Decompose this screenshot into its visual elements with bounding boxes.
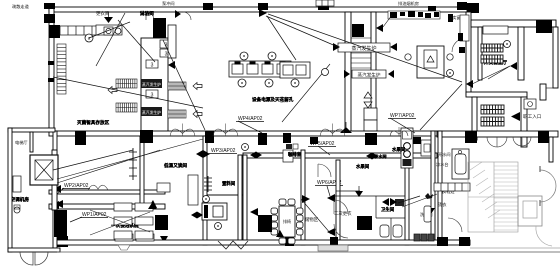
column meeting room — [258, 215, 272, 232]
column toilet black block — [357, 216, 372, 230]
svg-text:水果间: 水果间 — [355, 163, 370, 170]
tick mark left wall b — [48, 78, 54, 82]
arrow meeting room — [276, 230, 284, 237]
symbol circle near bench — [322, 69, 329, 76]
wall left vertical lower — [53, 131, 57, 248]
hood mark top right a2 — [448, 14, 453, 22]
svg-text:3: 3 — [165, 52, 168, 58]
wall jamb right entrance — [540, 84, 546, 100]
staircase bottom right — [468, 162, 518, 232]
stove bench center — [229, 61, 291, 77]
luminaire triangle top-left — [104, 17, 113, 23]
wire long top to right wall — [268, 14, 462, 82]
wire WP7 pointer — [390, 118, 415, 133]
arrow pair washroom wall — [191, 212, 197, 219]
door arc right wall — [452, 38, 466, 52]
riser column corridor right — [401, 128, 413, 168]
coffee room fixture box — [283, 150, 293, 162]
arrow takeout room — [510, 62, 517, 70]
wire WP6 pointer — [327, 186, 330, 196]
label box steam generator upper — [338, 43, 390, 52]
urinal row — [414, 234, 420, 241]
shelf hatched mid 3 — [168, 82, 186, 90]
shaft rung 7 — [351, 67, 371, 69]
fan symbol circle 4 — [238, 79, 246, 87]
column left wall upper — [49, 25, 60, 38]
column top-right corner — [467, 3, 479, 13]
wall vertical x440 b — [438, 131, 442, 245]
shaft rung 5 — [351, 57, 371, 59]
toilet fixture 1 — [380, 225, 389, 237]
shaft rung 1 — [351, 37, 371, 39]
entrance table hatched 2 — [481, 117, 504, 126]
arrow pair toilet wall — [382, 198, 389, 206]
double door stair hall 1 — [487, 137, 497, 147]
water heater rect annex — [13, 176, 21, 192]
takeout table hatched 1 — [481, 44, 503, 52]
shelf hatched mid 2 — [116, 103, 137, 112]
symbol circle washroom bottom — [215, 223, 222, 230]
wire right wall down — [420, 84, 462, 130]
column bottom wall x334 — [330, 237, 338, 245]
wall far-right vertical — [553, 27, 558, 88]
svg-text:低温又读间: 低温又读间 — [163, 162, 187, 169]
wire bench diagonal — [282, 64, 330, 122]
wall right stair hall x551 — [549, 137, 553, 162]
hood mark right wall — [459, 47, 465, 53]
stove bench left of shaft — [280, 62, 310, 78]
symbol circle corridor — [242, 144, 249, 151]
arrow staff entrance — [511, 112, 520, 121]
door double arc corridor 3 — [320, 129, 345, 136]
shaft rung 4 — [351, 52, 371, 54]
svg-text:WP3/AP02: WP3/AP02 — [211, 148, 236, 154]
open arrow hall 3 — [193, 111, 202, 118]
svg-text:开水间: 开水间 — [438, 151, 451, 158]
luminaire stem hall bottom — [345, 122, 347, 127]
open arrow hall 2 — [193, 83, 202, 90]
column corridor x314 — [310, 137, 318, 144]
symbol circle business — [447, 70, 454, 77]
door arc top wall 2 — [183, 12, 191, 20]
small icon annex — [14, 207, 20, 213]
white boxes on bottom wall 1 — [115, 234, 133, 241]
wire top to bench — [267, 16, 296, 60]
svg-text:咖啡室: 咖啡室 — [288, 151, 302, 158]
door double arc corridor 2 — [213, 129, 238, 136]
ironing room fixtures — [424, 206, 431, 222]
svg-text:泵冲间: 泵冲间 — [162, 0, 175, 7]
column top-right wing end — [536, 20, 552, 33]
arrow at top door 2 — [175, 10, 181, 18]
arrow hall right top — [376, 24, 383, 32]
arrow right wall x468 — [466, 80, 473, 88]
svg-text:设备电源及天花留孔: 设备电源及天花留孔 — [252, 96, 294, 103]
shaft left stack outline — [141, 38, 168, 133]
door arc toilet 1 — [334, 200, 348, 214]
elevator car X symbol — [35, 160, 53, 180]
svg-text:灭菌智具存放区: 灭菌智具存放区 — [76, 119, 110, 126]
sink counter toilet — [395, 199, 404, 206]
riser busbar left — [132, 148, 134, 180]
wall vertical x245 washroom-coffee — [243, 155, 247, 245]
takeout table hatched 2 — [481, 55, 503, 63]
wire arrow to hood — [383, 15, 392, 27]
white boxes on bottom wall 2 — [136, 234, 154, 241]
wall takeout room left x480 — [478, 27, 482, 80]
right exit double door — [540, 170, 556, 186]
wire takeout to wall — [470, 66, 510, 85]
entrance table hatched 1 — [481, 105, 504, 114]
symbol box with circle on desk — [104, 27, 113, 35]
arrow pair corridor x256 — [250, 152, 256, 159]
symbol circle desk — [115, 28, 121, 34]
wire WP1 pointer — [70, 217, 82, 222]
wall vertical x433 a — [431, 131, 435, 245]
wall corridor left upper y192 — [49, 190, 165, 194]
column top wall x207 — [203, 3, 213, 10]
door arc toilet 2 — [334, 224, 348, 238]
arrow WP3 left — [196, 150, 203, 158]
arrow right of steam label 2 — [388, 70, 394, 78]
shaft rung 2 — [351, 42, 371, 44]
duct flow arrows shaft — [364, 92, 372, 98]
symbol circle a top-left — [85, 34, 93, 42]
wall shaft right x373 — [371, 12, 376, 133]
shelf hatched left wall — [57, 44, 66, 94]
wire feeder left long — [57, 150, 160, 183]
step bottom center — [318, 245, 348, 251]
svg-text:水果间: 水果间 — [391, 146, 406, 153]
fixture box washroom upper — [421, 140, 433, 156]
column bottom wall left end — [57, 236, 68, 247]
box 3 stack d — [146, 90, 158, 98]
column top wall x323 — [318, 3, 329, 10]
svg-text:卫生间: 卫生间 — [381, 206, 395, 213]
wire top to steam label — [266, 16, 338, 47]
wall shaft left x348 — [345, 12, 351, 133]
arrow pair corridor tea — [366, 153, 372, 160]
svg-text:二次更衣: 二次更衣 — [334, 210, 352, 217]
arrow WP2 wall — [53, 185, 61, 193]
door arc storage — [318, 164, 331, 177]
sofa icon staff room — [524, 99, 536, 109]
wall corridor top y133 — [49, 131, 437, 136]
door double arc corridor 4 — [390, 131, 408, 136]
arrow WP3 leftpair — [203, 150, 210, 158]
svg-text:蒸汽发生炉: 蒸汽发生炉 — [142, 110, 161, 115]
door leaf right wall top — [460, 15, 469, 41]
washer unit — [202, 203, 227, 220]
door leaf 1 — [145, 12, 147, 20]
column bottom wall x464 — [459, 237, 470, 246]
shelf hatched mid 1 — [116, 79, 137, 88]
wire WP5 pointer — [318, 146, 330, 155]
arrow storage wall b — [327, 228, 335, 236]
wall washroom top y195 — [203, 194, 243, 196]
wall annex bottom — [8, 248, 60, 252]
wall vertical x407 — [405, 160, 409, 245]
locker row top-left — [60, 26, 99, 35]
box 3 stack b — [160, 49, 172, 57]
wall annex left — [8, 128, 12, 252]
wall bottom main — [57, 240, 470, 245]
wire storage diagonal — [301, 199, 331, 234]
wall corridor bottom y155 — [243, 153, 437, 158]
fan coil box shaft lower 1 — [364, 108, 377, 120]
column corridor x146 — [140, 130, 153, 143]
column corridor x287 — [283, 133, 291, 143]
svg-text:蒸汽发生炉: 蒸汽发生炉 — [142, 82, 161, 87]
svg-text:更衣间: 更衣间 — [96, 10, 109, 17]
wire top-left b — [118, 20, 155, 62]
arrow wall left lower — [55, 200, 63, 208]
wall annex partition vertical — [30, 132, 33, 152]
luminaire triangle washroom — [427, 208, 435, 214]
luminaire stem — [108, 12, 110, 17]
business room cabinet — [417, 46, 444, 78]
wire circle-a to wall — [89, 22, 130, 38]
svg-text:3: 3 — [151, 63, 154, 69]
arrow down bottom wall x164 — [160, 236, 168, 243]
luminaire triangle second-changing — [355, 191, 363, 197]
column corridor x80 — [75, 131, 86, 145]
tick mark left wall a — [48, 61, 54, 65]
column corridor x262 — [258, 133, 267, 145]
svg-text:淋浴间: 淋浴间 — [140, 10, 154, 17]
svg-text:WP2/AP02: WP2/AP02 — [64, 183, 89, 189]
bottom center door double V — [218, 241, 248, 249]
box 3 stack c — [146, 60, 158, 68]
column bottom wall x442 — [437, 237, 448, 246]
wall takeout room right x521 — [518, 27, 524, 80]
label bar dark left shaft 2 — [141, 107, 162, 116]
column top wall x263 — [258, 3, 268, 10]
shaft rung 3 — [351, 47, 371, 49]
fan symbol circle 5 — [265, 79, 273, 87]
column corridor x417 — [413, 137, 421, 144]
fan symbol circle 2 — [268, 52, 276, 60]
column top-left corner upper — [44, 3, 55, 9]
wire hall horizontal feed — [53, 77, 203, 108]
black mark right wall door — [458, 33, 463, 41]
svg-text:蒸汽发生炉: 蒸汽发生炉 — [358, 72, 381, 79]
column top-left corner lower — [44, 14, 55, 23]
arrow up soak room — [148, 202, 157, 209]
wall vertical x474 takeout room — [472, 97, 477, 140]
wall annex top — [8, 128, 55, 132]
wall top-right horizontal wing — [471, 20, 556, 27]
svg-text:排油烟机房: 排油烟机房 — [398, 0, 419, 7]
wall left main vertical — [49, 7, 54, 131]
door arc top wall 1 — [146, 12, 154, 20]
white box disinfection room — [157, 183, 170, 192]
column top wall x461 — [457, 2, 467, 10]
label bar dark left shaft 1 — [141, 79, 162, 88]
hood equipment strip top right — [388, 11, 440, 19]
arrow storage wall a — [327, 194, 335, 202]
double door stair hall 2 — [513, 137, 522, 146]
shelf hatched mid 4 — [168, 110, 186, 118]
luminaire triangle hall bottom — [340, 127, 352, 133]
door arc ironing room — [448, 218, 462, 232]
column corridor right x543 — [538, 131, 549, 143]
toilet partition walls — [334, 195, 405, 197]
soak tank grid — [114, 203, 132, 211]
tall shelf disinfection room — [188, 175, 198, 205]
elevator shaft box — [30, 155, 58, 185]
column soak room — [155, 215, 168, 230]
arrow storage wall c — [302, 195, 310, 203]
column corridor right x471 — [465, 131, 477, 143]
column top wall x432 — [428, 6, 436, 11]
symbol circle washroom top — [203, 196, 210, 203]
cross wires soak room — [90, 210, 150, 232]
wall annex right — [52, 150, 57, 210]
shaft rung 6 — [351, 62, 371, 64]
wall vertical x205 — [203, 136, 207, 245]
wire feeder left longer — [57, 139, 203, 179]
wall right vertical below entrance — [521, 97, 527, 147]
svg-text:电梯厅: 电梯厅 — [15, 139, 28, 146]
wire left shaft to corridor — [163, 40, 205, 130]
wall vertical x338 second-changing — [336, 160, 340, 245]
wall inner second-changing y191 — [336, 190, 360, 192]
column annex bottom right — [54, 210, 67, 237]
toilet fixture 2 — [393, 225, 402, 237]
fan symbol circle 1 — [240, 52, 248, 60]
door arcs corridor left wall — [88, 185, 108, 190]
hot water table — [452, 149, 469, 179]
riser busbar mid — [207, 176, 209, 192]
shelf white takeout — [483, 26, 508, 34]
label box steam generator lower — [352, 70, 386, 78]
wall horizontal staff-entrance top — [466, 92, 527, 97]
svg-text:WP4/AP02: WP4/AP02 — [238, 116, 263, 122]
column corridor x371 — [365, 133, 377, 145]
door double arc corridor 1 — [170, 129, 195, 136]
wire toilet to washroom — [402, 194, 437, 207]
wire toilet pointer — [398, 196, 420, 203]
wall corridor left lower y206 — [49, 204, 165, 209]
arrow right of steam label — [390, 43, 397, 51]
column corridor x209 — [205, 131, 214, 143]
arrow left of steam label 2 — [344, 70, 350, 78]
arrow left at stack — [168, 61, 175, 69]
luminaire stem second-changing — [358, 186, 360, 191]
svg-text:储物区: 储物区 — [305, 216, 319, 223]
box 3 stack a — [160, 40, 172, 48]
luminaire triangle center top — [259, 9, 267, 17]
arrow washroom wall left — [250, 208, 258, 216]
arrow up corridor x152 — [148, 200, 157, 208]
door leaf tall rect — [168, 25, 176, 58]
svg-text:茶水间: 茶水间 — [373, 153, 387, 160]
open arrow hall 1 — [108, 87, 117, 94]
desk top-left — [96, 25, 122, 35]
panel black shaft upper — [352, 24, 364, 37]
wall right-upper vertical x468 — [466, 12, 471, 95]
arrow wall left lower2 — [51, 201, 59, 209]
arrow left of steam label — [333, 43, 340, 51]
fan coil box shaft lower 2 — [364, 120, 377, 133]
wall vertical x142 — [140, 136, 144, 205]
svg-text:排椅: 排椅 — [283, 218, 291, 224]
bottom right faint door arc — [536, 226, 552, 246]
svg-text:疏散走道: 疏散走道 — [12, 3, 30, 10]
locker row right — [434, 183, 470, 191]
symbol circle takeout — [504, 41, 511, 48]
wall top main, double line — [49, 7, 467, 12]
panel black left shaft — [153, 18, 166, 38]
wire riser feed left — [53, 150, 133, 170]
svg-text:3: 3 — [165, 43, 168, 49]
svg-text:置料间: 置料间 — [222, 180, 236, 187]
wall vertical x303 coffee-storage — [301, 150, 305, 245]
sidewalk line bottom — [57, 251, 560, 253]
wire takeout short — [488, 66, 510, 79]
wire jamb link — [546, 87, 553, 89]
wire top-left a — [96, 13, 125, 66]
step bottom left — [118, 245, 130, 250]
wall vertical x240 — [238, 155, 242, 245]
vent stack above top wall — [316, 0, 334, 6]
wire WP4 pointer — [238, 121, 262, 133]
meeting table with chairs — [279, 206, 295, 237]
wall corridor top right extension — [437, 131, 558, 137]
dumbwaiter square — [518, 196, 542, 226]
svg-text:WP7/AP02: WP7/AP02 — [390, 113, 415, 119]
svg-text:烫衣: 烫衣 — [438, 201, 447, 208]
wire WP2 pointer — [57, 188, 64, 194]
fan symbol circle 3 — [291, 79, 299, 87]
annex entrance double door — [20, 252, 33, 265]
column bottom wall x289 — [285, 237, 294, 246]
svg-text:凉水台: 凉水台 — [436, 161, 449, 168]
